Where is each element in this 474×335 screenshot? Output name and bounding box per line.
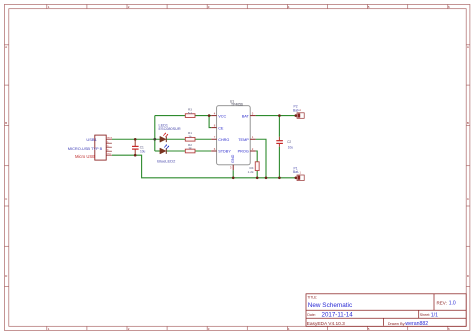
USB1 pin 2 D- [106, 142, 112, 144]
wire LED1 cathode to R1 [166, 138, 186, 140]
USB1 pin 5 GND [106, 154, 112, 156]
svg-text:1.2k: 1.2k [248, 170, 254, 174]
wire TEMP down to rail [256, 139, 266, 178]
USB1 pin 1 VBUS [106, 138, 113, 140]
svg-text:REV:: REV: [437, 300, 447, 305]
junction LED anode node [153, 138, 156, 141]
svg-text:VBUS: VBUS [107, 138, 113, 140]
svg-text:Micro USB: Micro USB [75, 154, 95, 159]
svg-text:A: A [467, 45, 469, 49]
title block outline [306, 294, 466, 327]
svg-text:BlueLED2: BlueLED2 [157, 158, 176, 163]
wire R2 to STDBY [195, 150, 211, 152]
U1 pin 2 PROG stub [250, 150, 255, 152]
junction C2 top [278, 114, 281, 117]
junction TEMP on rail [265, 177, 268, 180]
svg-text:C2: C2 [287, 140, 291, 144]
wire C2 bottom lead [278, 147, 280, 178]
svg-text:USB1: USB1 [86, 137, 97, 142]
resistor R2 [185, 149, 195, 153]
svg-text:MICRO-USB TYP B: MICRO-USB TYP B [68, 146, 103, 151]
capacitor C2 bottom pin stub [278, 143, 280, 146]
svg-text:1.0: 1.0 [449, 300, 456, 306]
svg-text:ESC080SUR: ESC080SUR [159, 127, 181, 131]
svg-text:P1: P1 [294, 166, 298, 170]
connector USB1 micro-usb body [95, 135, 106, 160]
svg-text:D-: D- [107, 142, 109, 144]
wire R4 bottom to rail [256, 171, 258, 178]
LED LED1 red [160, 132, 168, 142]
svg-text:1/1: 1/1 [431, 312, 438, 318]
junction U1 GND on rail [232, 177, 235, 180]
svg-text:GND: GND [231, 154, 235, 163]
connector P2 Bat+ [295, 113, 305, 119]
resistor R3 [185, 114, 195, 118]
capacitor C1 [132, 146, 139, 149]
U1 pin 4 VCC stub [211, 115, 216, 117]
svg-text:1k: 1k [188, 146, 192, 150]
wire CE branch [209, 116, 211, 128]
svg-text:P2: P2 [294, 104, 298, 108]
wire BAT to P2 [256, 114, 296, 116]
svg-text:VCC: VCC [218, 114, 226, 118]
wire U1 GND pin to rail [232, 170, 234, 178]
svg-text:TITLE:: TITLE: [307, 296, 317, 300]
svg-text:Sheet:: Sheet: [420, 313, 430, 317]
U1 pin 6 STDBY stub [211, 150, 216, 152]
junction C1 bottom [134, 154, 137, 157]
svg-text:CHRG: CHRG [218, 138, 229, 142]
junction CE branch [208, 114, 211, 117]
connector P1 Bat- [295, 175, 305, 181]
svg-text:TEMP: TEMP [238, 138, 249, 142]
svg-text:B: B [467, 121, 469, 125]
U1 pin 5 BAT stub [250, 115, 255, 117]
resistor R4 [255, 162, 259, 171]
svg-text:New Schematic: New Schematic [308, 302, 353, 309]
U1 pin 7 CHRG stub [211, 138, 216, 140]
wire VCC row left of R3 [155, 114, 186, 116]
wire C2 top lead [278, 116, 280, 137]
svg-text:10u: 10u [288, 146, 294, 150]
junction C1 top [134, 138, 137, 141]
svg-text:EasyEDA V4.10.3: EasyEDA V4.10.3 [307, 321, 345, 327]
U1 pin 3 GND stub [232, 165, 234, 170]
svg-text:R4: R4 [250, 166, 254, 170]
svg-text:CE: CE [218, 126, 224, 130]
svg-text:2017-11-14: 2017-11-14 [322, 312, 354, 319]
svg-text:10u: 10u [140, 150, 146, 154]
svg-text:Drawn By:: Drawn By: [388, 321, 406, 326]
wire VCC row right of R3 [195, 114, 211, 116]
capacitor C2 [276, 141, 283, 144]
capacitor C1 top lead stub [134, 139, 136, 146]
capacitor C2 top pin stub [278, 137, 280, 141]
LED LED2 blue [160, 144, 169, 154]
svg-text:TP4056: TP4056 [231, 103, 243, 107]
resistor R1 [185, 137, 195, 141]
svg-text:C1: C1 [140, 145, 144, 149]
wire LED anode vertical column [154, 116, 156, 151]
wire PROG to R4 [256, 151, 258, 162]
junction R4 on rail [256, 177, 259, 180]
junction C2 on rail [278, 177, 281, 180]
svg-text:weran882: weran882 [405, 321, 428, 327]
svg-text:PROG: PROG [238, 150, 249, 154]
svg-text:5.1: 5.1 [188, 111, 193, 115]
svg-text:A: A [5, 45, 7, 49]
IC U1 TP4056 body [217, 106, 251, 165]
USB1 pin 3 D+ [106, 146, 112, 148]
svg-text:1k: 1k [188, 134, 192, 138]
wire R1 to CHRG [195, 138, 211, 140]
wire VBUS from USB to LED anode column [112, 138, 160, 140]
svg-text:Bat+: Bat+ [293, 108, 300, 112]
svg-text:Bat-: Bat- [293, 170, 299, 174]
USB1 pin 4 ID [106, 150, 112, 152]
capacitor C1 bottom lead stub [134, 149, 136, 155]
U1 pin 8 CE stub [211, 127, 216, 129]
wire USB GND to ground rail [112, 155, 296, 178]
svg-text:Date:: Date: [307, 313, 315, 317]
svg-text:B: B [5, 121, 7, 125]
svg-text:STDBY: STDBY [218, 150, 231, 154]
U1 pin 1 TEMP stub [250, 138, 255, 140]
svg-text:GND: GND [107, 154, 112, 156]
wire LED2 cathode to R2 [166, 150, 186, 152]
svg-text:BAT: BAT [242, 114, 250, 118]
wire LED2 anode stub [155, 150, 161, 152]
